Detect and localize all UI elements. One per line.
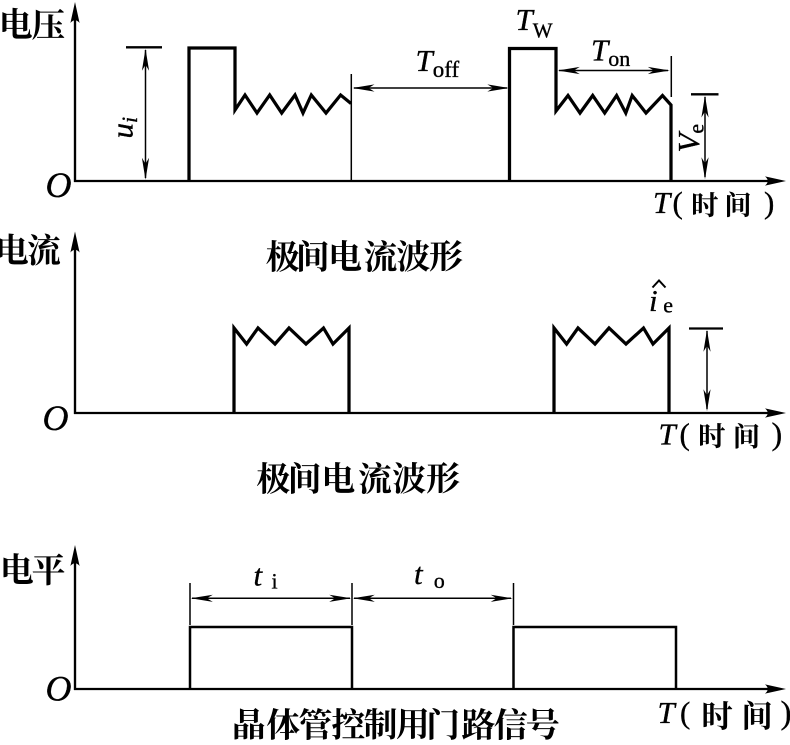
caption jijian dianliu boxing (top) — [266, 240, 462, 272]
dimension arrow Ve — [701, 96, 708, 180]
current pulse2 panel2 — [554, 328, 669, 413]
svg-text:t: t — [254, 558, 264, 593]
gate pulse2 panel3 — [514, 627, 677, 689]
axis label T(time) panel3 — [658, 695, 790, 732]
svg-text:t: t — [414, 556, 424, 591]
tick ie top — [689, 327, 723, 329]
dimension arrow ie — [703, 330, 710, 412]
extension line ti left — [189, 583, 191, 625]
dimension arrow ti — [191, 595, 351, 602]
dimension arrow Toff — [353, 84, 510, 91]
svg-text:): ) — [772, 416, 783, 452]
label dianya (voltage) — [2, 8, 64, 40]
tick Ve top — [691, 93, 719, 95]
svg-text:e: e — [663, 293, 673, 318]
svg-text:i: i — [272, 569, 278, 594]
svg-text:T: T — [658, 695, 678, 730]
svg-text:O: O — [46, 165, 72, 205]
extension line end of pulse1 — [350, 74, 352, 180]
svg-text:O: O — [43, 398, 69, 438]
caption jijian dianliu boxing (bottom) — [257, 462, 460, 494]
svg-text:O: O — [46, 669, 72, 709]
label ie-hat — [649, 281, 673, 319]
tick ui top — [126, 46, 162, 48]
svg-text:(: ( — [673, 185, 683, 220]
y-axis panel2 — [70, 232, 79, 415]
extension line to right — [513, 583, 515, 625]
dimension arrow ui — [142, 49, 149, 180]
y-axis panel1 — [70, 2, 79, 182]
x-axis panel3 — [74, 684, 786, 693]
extension line Ton right — [670, 56, 672, 97]
waveform pulse2 panel1 with spark zigzag — [510, 49, 672, 182]
current pulse1 panel2 — [234, 328, 349, 413]
x-axis panel1 — [74, 176, 786, 185]
svg-text:(: ( — [680, 695, 690, 730]
svg-text:T: T — [653, 185, 673, 220]
svg-text:T: T — [659, 417, 679, 452]
dimension arrow to — [353, 595, 513, 602]
gate pulse1 panel3 — [190, 627, 352, 689]
svg-text:): ) — [781, 696, 790, 732]
caption jingtiguan gate signal — [235, 708, 559, 740]
svg-text:i: i — [649, 283, 658, 318]
axis label T(time) panel2 — [659, 416, 783, 452]
waveform pulse1 panel1 with spark zigzag — [189, 48, 351, 181]
label dianliu (current) — [0, 233, 60, 265]
svg-text:o: o — [434, 568, 445, 593]
axis label T(time) panel1 — [653, 185, 774, 220]
label dianping (level) — [3, 553, 64, 585]
x-axis panel2 — [74, 408, 786, 417]
svg-text:): ) — [764, 185, 774, 220]
dimension arrow Ton — [558, 67, 670, 74]
extension line ti/to middle — [351, 583, 353, 625]
svg-text:(: ( — [680, 417, 690, 452]
y-axis panel3 — [70, 545, 79, 690]
